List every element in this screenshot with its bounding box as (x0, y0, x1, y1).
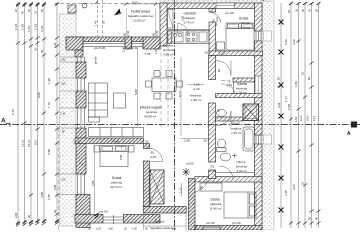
hall closet with X (150, 170, 164, 204)
svg-text:8,77: 8,77 (178, 91, 182, 97)
svg-text:60: 60 (308, 217, 312, 220)
terrace south wall piers (66, 37, 160, 42)
svg-text:1,76: 1,76 (47, 102, 51, 108)
svg-text:4,00: 4,00 (292, 39, 296, 45)
svg-text:1,93: 1,93 (21, 24, 25, 30)
svg-text:1,20: 1,20 (96, 228, 101, 230)
wall gardrob/szoba (209, 9, 263, 56)
svg-text:30: 30 (40, 50, 44, 53)
svg-text:parketta: parketta (239, 21, 250, 25)
svg-text:10: 10 (301, 182, 305, 185)
svg-text:7,55 m²: 7,55 m² (231, 131, 242, 135)
svg-text:90: 90 (151, 151, 155, 155)
svg-text:90: 90 (217, 69, 221, 72)
svg-text:1,05: 1,05 (132, 228, 137, 230)
svg-text:4,50 m²: 4,50 m² (163, 53, 174, 57)
corridor west wall segments (209, 56, 216, 179)
svg-text:1,4: 1,4 (172, 228, 176, 230)
svg-text:2,25: 2,25 (47, 194, 51, 200)
svg-text:11,40 m²: 11,40 m² (210, 207, 222, 211)
svg-text:20: 20 (34, 48, 38, 51)
svg-text:parketta: parketta (210, 202, 221, 206)
svg-text:Fedett terasz: Fedett terasz (131, 10, 151, 14)
svg-text:1,43: 1,43 (34, 24, 38, 30)
svg-text:20: 20 (315, 9, 319, 12)
north wall (160, 3, 262, 9)
svg-text:1,80: 1,80 (61, 83, 66, 86)
svg-text:30: 30 (27, 215, 31, 218)
section lines redrawn on top (0, 124, 360, 126)
svg-text:2,28: 2,28 (287, 104, 291, 110)
svg-text:kerámia: kerámia (146, 110, 157, 114)
chimney (243, 104, 259, 121)
left outer dashed overhang (58, 128, 60, 230)
left wall piers (hatched) (76, 62, 90, 228)
svg-text:2,10: 2,10 (210, 169, 216, 173)
svg-text:10,20 m²: 10,20 m² (238, 26, 250, 30)
svg-text:2,10: 2,10 (226, 83, 232, 87)
svg-text:2,18 m²: 2,18 m² (236, 90, 247, 94)
svg-text:±0,00: ±0,00 (186, 162, 194, 166)
beds / furniture top szoba (217, 23, 255, 50)
svg-text:kerámia: kerámia (163, 48, 174, 52)
svg-text:5,10: 5,10 (284, 39, 288, 45)
svg-text:2,40: 2,40 (61, 179, 66, 182)
bathroom fixtures (217, 110, 255, 162)
kamra/bathroom walls (233, 78, 255, 82)
sofa (89, 83, 108, 122)
svg-text:90: 90 (152, 33, 156, 36)
svg-text:-0,02: -0,02 (131, 0, 138, 4)
svg-text:pm 0,00: pm 0,00 (127, 46, 138, 50)
svg-text:parketta: parketta (111, 181, 122, 185)
gardrob closet (168, 10, 174, 29)
left insulation band (60, 14, 77, 226)
top insulation sliver (160, 0, 262, 3)
svg-text:Szoba: Szoba (211, 198, 221, 202)
bottom-left bedroom south wall (75, 215, 103, 224)
svg-text:40,89 m²: 40,89 m² (144, 115, 156, 119)
svg-text:11,17: 11,17 (27, 139, 31, 147)
bedroom2 south wall (195, 226, 262, 231)
svg-text:parketta: parketta (184, 16, 195, 20)
east wall (hatched) (255, 3, 263, 230)
svg-text:kerámia: kerámia (236, 165, 247, 169)
svg-text:kerámia: kerámia (231, 127, 242, 131)
svg-text:10,36 m²: 10,36 m² (133, 19, 145, 23)
door arcs (150, 13, 235, 192)
svg-text:3,63 m²: 3,63 m² (237, 169, 248, 173)
svg-text:1,43: 1,43 (27, 26, 31, 32)
bottom text row fragments (88, 228, 176, 231)
svg-text:kerámia: kerámia (190, 94, 201, 98)
svg-text:Fürdő: Fürdő (232, 122, 241, 126)
svg-text:3,00: 3,00 (292, 184, 296, 190)
svg-text:3,79 m²: 3,79 m² (184, 21, 195, 25)
svg-text:2,13: 2,13 (14, 24, 18, 30)
svg-text:2,13: 2,13 (40, 26, 44, 32)
svg-text:20,74 m²: 20,74 m² (110, 185, 122, 189)
svg-text:7,55: 7,55 (145, 52, 151, 56)
svg-text:Házt.k.: Házt.k. (237, 160, 247, 164)
svg-text:2,10: 2,10 (215, 16, 219, 22)
bedroom1 east wall (144, 144, 150, 149)
svg-text:3,95: 3,95 (47, 149, 51, 155)
svg-text:14,0: 14,0 (306, 115, 310, 121)
svg-text:Belépő: Belépő (155, 220, 165, 224)
svg-text:30: 30 (205, 51, 209, 55)
svg-text:4,65: 4,65 (53, 184, 57, 190)
svg-text:5,82: 5,82 (37, 92, 41, 98)
svg-text:10: 10 (301, 72, 305, 75)
svg-text:Étkező-nappali: Étkező-nappali (140, 105, 162, 110)
svg-text:A: A (347, 131, 351, 137)
svg-text:90: 90 (217, 109, 221, 112)
svg-text:3,60: 3,60 (108, 228, 113, 230)
bedroom2 north wall (195, 177, 262, 183)
svg-text:30: 30 (145, 140, 149, 144)
svg-text:75: 75 (211, 165, 215, 169)
svg-text:A: A (1, 118, 6, 125)
svg-text:4,60: 4,60 (113, 140, 119, 144)
svg-text:2,17: 2,17 (284, 96, 288, 102)
svg-text:pm 90: pm 90 (94, 56, 98, 64)
svg-text:30: 30 (308, 9, 312, 12)
svg-text:1,50: 1,50 (294, 116, 298, 122)
svg-text:1,80 m²: 1,80 m² (191, 98, 202, 102)
porch lines (143, 213, 186, 230)
svg-text:60: 60 (315, 217, 319, 220)
sideboard (89, 128, 144, 137)
svg-text:1,00: 1,00 (154, 48, 158, 54)
bedroom1 north wall (75, 138, 144, 144)
svg-text:1,80: 1,80 (61, 59, 66, 62)
svg-text:90: 90 (200, 186, 204, 189)
svg-text:pm 0,00: pm 0,00 (94, 46, 105, 50)
svg-text:2,40: 2,40 (155, 30, 159, 36)
living room dashed verticals (160, 46, 162, 127)
kitchen counter (168, 31, 210, 44)
svg-text:pm 90: pm 90 (225, 11, 234, 15)
svg-text:30: 30 (77, 140, 81, 144)
terrace east wall (160, 3, 167, 46)
svg-text:1,45: 1,45 (53, 42, 57, 48)
svg-text:30: 30 (53, 210, 57, 213)
svg-text:1,50: 1,50 (294, 81, 298, 87)
interior dim helper lines (95, 48, 211, 213)
svg-text:fagyálló mázas ker: fagyálló mázas ker (128, 14, 154, 18)
svg-text:1,43: 1,43 (94, 20, 98, 26)
svg-text:2,40: 2,40 (61, 113, 66, 116)
right insulation band (262, 1, 274, 230)
svg-text:pm 90: pm 90 (232, 221, 241, 225)
svg-text:pm 90: pm 90 (99, 210, 108, 214)
svg-text:Gardrób: Gardrób (184, 12, 196, 16)
svg-text:75: 75 (212, 19, 216, 22)
svg-text:20: 20 (287, 10, 291, 13)
coffee table (114, 93, 126, 108)
svg-text:11,11: 11,11 (21, 139, 25, 147)
svg-text:4,85: 4,85 (40, 192, 44, 198)
svg-text:2,10: 2,10 (194, 87, 200, 91)
svg-text:1,00: 1,00 (219, 52, 225, 56)
svg-text:2,40: 2,40 (122, 46, 126, 52)
terrace south wall glass doors (83, 42, 143, 49)
bedroom2 bed (200, 183, 256, 218)
svg-text:10,2: 10,2 (34, 139, 38, 145)
svg-text:90: 90 (123, 33, 127, 36)
svg-text:4,65: 4,65 (119, 154, 123, 160)
svg-text:2,05: 2,05 (277, 102, 281, 108)
svg-text:2,10: 2,10 (150, 155, 156, 159)
svg-text:30: 30 (301, 9, 305, 12)
svg-text:Szoba: Szoba (112, 176, 122, 180)
east wall windows (256, 31, 261, 144)
svg-text:13,4: 13,4 (299, 115, 303, 121)
bedroom1 bed (94, 146, 134, 167)
svg-text:30: 30 (204, 139, 208, 143)
svg-text:30: 30 (295, 9, 299, 12)
svg-text:pm 90: pm 90 (206, 221, 215, 225)
svg-text:90: 90 (307, 77, 311, 80)
hall south wall (143, 207, 186, 214)
svg-text:Szoba: Szoba (239, 17, 249, 21)
svg-text:1,10: 1,10 (179, 187, 183, 193)
svg-text:13,4: 13,4 (312, 115, 316, 121)
svg-text:2,80: 2,80 (14, 212, 18, 218)
svg-text:2,65: 2,65 (184, 139, 190, 143)
svg-text:5,75: 5,75 (11, 109, 15, 115)
svg-text:4,45: 4,45 (284, 190, 288, 196)
sill lines across insulation (60, 57, 77, 195)
bedroom2 west wall (189, 179, 196, 231)
dining table + chairs (146, 71, 183, 100)
svg-text:1,95: 1,95 (47, 78, 51, 84)
svg-text:2,40: 2,40 (126, 30, 130, 36)
left wall windows (glazing lines) (78, 57, 85, 195)
